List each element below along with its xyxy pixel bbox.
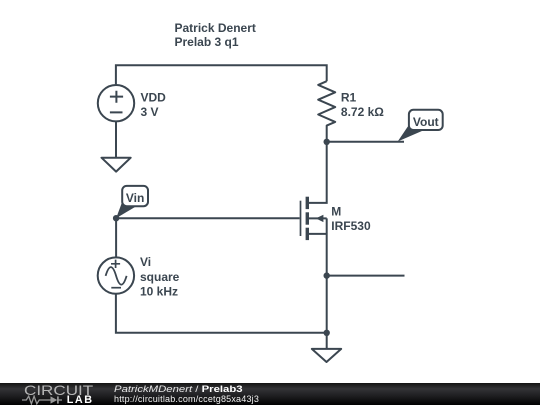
node dot Vout bbox=[324, 139, 330, 145]
svg-text:square: square bbox=[140, 270, 180, 284]
footer username bbox=[114, 384, 243, 394]
transistor M arrow bbox=[316, 215, 324, 222]
footer url bbox=[114, 394, 259, 404]
node dot bottom bbox=[324, 330, 330, 336]
voltage source VDD bbox=[98, 85, 134, 121]
svg-text:10 kHz: 10 kHz bbox=[140, 284, 178, 298]
svg-text:Prelab 3 q1: Prelab 3 q1 bbox=[175, 35, 239, 49]
resistor R1 bbox=[318, 81, 335, 142]
svg-text:Vi: Vi bbox=[140, 255, 151, 269]
node dot Vin bbox=[113, 215, 119, 221]
flag Vout bbox=[398, 110, 443, 142]
transistor M body wire bbox=[309, 217, 327, 219]
ground 2 bbox=[312, 349, 341, 362]
footer logo squiggle bbox=[22, 395, 66, 405]
svg-text:Patrick Denert: Patrick Denert bbox=[175, 21, 256, 35]
svg-text:IRF530: IRF530 bbox=[331, 219, 371, 233]
wire source vertical bbox=[326, 218, 328, 332]
Vi plus bbox=[111, 260, 120, 268]
Vi sine wave bbox=[106, 267, 127, 285]
transistor M gate line bbox=[300, 201, 302, 236]
transistor M bars bbox=[306, 197, 309, 209]
svg-text:VDD: VDD bbox=[141, 90, 167, 104]
flag Vin bbox=[116, 186, 148, 218]
svg-text:M: M bbox=[331, 205, 341, 219]
wire gate bbox=[116, 217, 300, 219]
svg-text:R1: R1 bbox=[341, 91, 357, 105]
svg-text:8.72 kΩ: 8.72 kΩ bbox=[341, 105, 384, 119]
footer logo LAB bbox=[67, 394, 94, 405]
svg-text:3 V: 3 V bbox=[141, 105, 159, 119]
svg-text:Vin: Vin bbox=[126, 191, 144, 205]
wire drain bbox=[309, 142, 327, 203]
wire node to Vout bbox=[327, 141, 404, 143]
wire VDD to ground bbox=[115, 121, 117, 157]
footer logo CIRCUIT bbox=[24, 383, 93, 398]
ground bbox=[102, 158, 131, 172]
wire Vin to Vi bbox=[115, 218, 117, 256]
Vi minus bbox=[111, 287, 121, 289]
node dot source bbox=[324, 272, 330, 278]
voltage source Vi bbox=[98, 257, 134, 293]
wire Vi bottom bbox=[116, 294, 327, 333]
transistor M source wire bbox=[309, 233, 327, 235]
wire source stub bbox=[327, 275, 405, 277]
wire top rail bbox=[116, 65, 327, 84]
wire to ground 2 bbox=[326, 333, 328, 349]
footer bar bbox=[0, 383, 540, 405]
svg-text:Vout: Vout bbox=[413, 115, 439, 129]
